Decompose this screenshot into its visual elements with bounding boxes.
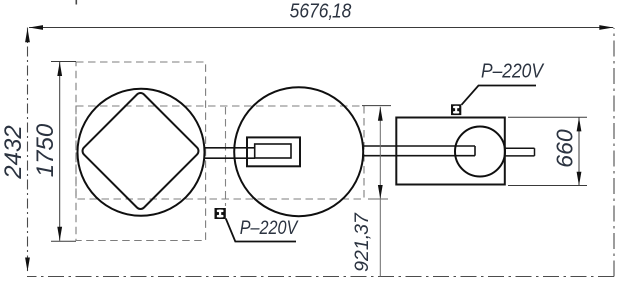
extension line stub top (cropped)	[75, 0, 77, 5]
arrow down of 1750	[57, 227, 62, 241]
leader line top P-220V	[462, 86, 537, 105]
machine 1 circle	[78, 89, 205, 216]
machine 1 diamond (rounded square rotated 45)	[80, 91, 200, 211]
machine 2 coupling inner rect	[255, 144, 291, 158]
machine 3 housing rect	[396, 118, 505, 185]
dimension line 5676,18 (top)	[29, 27, 613, 29]
extension line 1750 bottom	[51, 240, 76, 242]
arrow up of 1750	[57, 62, 62, 76]
svg-text:2432: 2432	[0, 125, 27, 179]
dimension line 1750	[59, 62, 61, 241]
connector symbol top (socket)	[451, 104, 461, 115]
extension line 660 top	[508, 116, 587, 118]
svg-text:5676,18: 5676,18	[290, 0, 352, 22]
machine 2 circle	[234, 87, 363, 216]
arrow down of 921,37	[378, 185, 383, 199]
extension line 1750 top	[51, 61, 76, 63]
dimension line 660	[578, 117, 580, 185]
svg-text:921,37: 921,37	[351, 212, 373, 272]
shaft between machine 2 and machine 3 (bottom line)	[363, 155, 476, 157]
extension line 921,37 bottom	[368, 198, 388, 200]
dashed foundation footprint (middle)	[76, 106, 364, 199]
machine 2 coupling outer rect	[247, 137, 300, 166]
arrow down of 660	[577, 172, 582, 186]
shaft end cap inside machine 3	[474, 146, 476, 156]
dimension line 2432 (left, dash-dot)	[27, 28, 29, 272]
shaft between machine 2 and machine 3 (top line)	[363, 145, 476, 147]
arrow down of 2432	[25, 258, 30, 272]
arrow up of 2432	[25, 28, 30, 42]
arrow up of 660	[577, 117, 582, 131]
extension line 921,37 top	[362, 105, 391, 107]
output stub shaft (bottom line)	[505, 155, 535, 157]
arrow left of top dimension	[29, 25, 43, 30]
dashed outline machine 1 footprint	[76, 62, 206, 241]
leader line bottom P-220V	[226, 219, 296, 242]
svg-text:660: 660	[552, 129, 578, 168]
border right (dash-dot)	[613, 28, 615, 277]
extension line 660 bottom	[508, 185, 587, 187]
machine 3 rotor circle	[455, 127, 505, 177]
svg-text:P–220V: P–220V	[240, 216, 299, 238]
dimension line 921,37	[379, 107, 381, 277]
svg-text:1750: 1750	[32, 123, 59, 177]
arrow up of 921,37	[378, 107, 383, 121]
shaft between machine 1 and machine 2 (bottom line)	[204, 157, 255, 159]
output stub shaft (top line)	[505, 147, 535, 149]
extension line to connector (grey vertical)	[225, 107, 227, 206]
output stub shaft end cap	[534, 148, 536, 156]
arrow right of top dimension	[599, 25, 613, 30]
connector symbol bottom (socket)	[215, 208, 226, 219]
shaft between machine 1 and machine 2 (top line)	[204, 147, 255, 149]
border bottom (dash-dot)	[27, 276, 614, 278]
svg-text:P–220V: P–220V	[481, 60, 545, 83]
